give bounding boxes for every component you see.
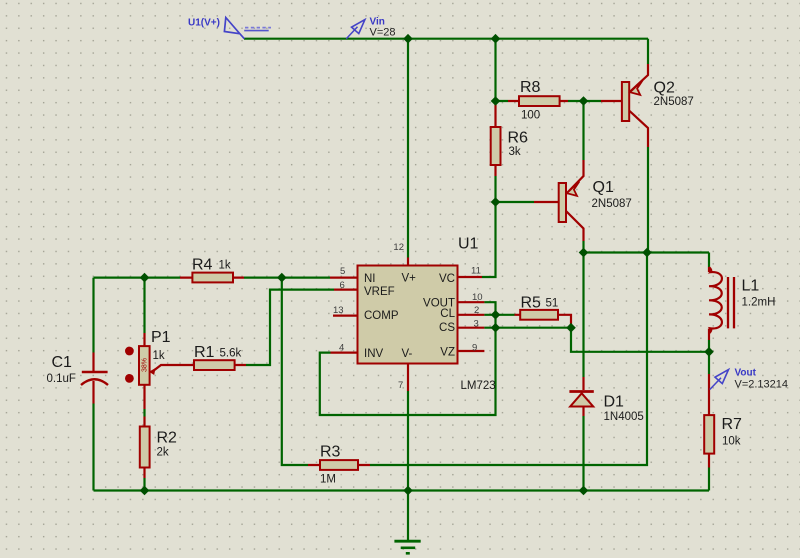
node top rail / left vertical (491, 34, 501, 44)
transistor Q2 2N5087 (622, 82, 629, 121)
wire D1 branch (582, 253, 584, 491)
node Q1 base / R6 bottom (491, 197, 501, 207)
node CS / VOUT vertical (491, 323, 501, 333)
node top rail / pin12 (403, 34, 413, 44)
svg-text:1k: 1k (219, 260, 231, 272)
node NI row / P1 top (140, 273, 150, 283)
svg-text:0.1uF: 0.1uF (47, 373, 76, 385)
svg-text:1N4005: 1N4005 (604, 411, 644, 423)
resistor R7 (704, 415, 714, 454)
node switch rail / Q2 collector (642, 248, 652, 258)
node ground rail / pin7 (403, 486, 413, 496)
wire P1/R2 branch (143, 278, 145, 491)
svg-text:CL: CL (440, 308, 455, 320)
svg-text:38%: 38% (142, 358, 149, 372)
diode D1 1N4005 (569, 390, 593, 393)
wire Q1 collector drop (566, 211, 584, 241)
node ground rail / R2 (140, 486, 150, 496)
svg-text:11: 11 (471, 266, 481, 277)
svg-text:R8: R8 (520, 79, 541, 96)
wire CL row to R5 (459, 315, 572, 328)
node R5 right / CS row (566, 323, 576, 333)
svg-text:D1: D1 (604, 394, 625, 411)
wire left vertical to R8/R6 (494, 39, 496, 101)
svg-text:2N5087: 2N5087 (592, 198, 632, 210)
svg-text:Vout: Vout (735, 368, 757, 379)
resistor R4 (192, 273, 233, 283)
svg-text:10k: 10k (722, 436, 741, 448)
svg-text:VC: VC (439, 273, 455, 285)
resistor R3 (320, 460, 358, 470)
svg-text:CS: CS (439, 322, 455, 334)
wire VZ stub (459, 350, 485, 352)
transistor Q1 2N5087 (559, 183, 566, 222)
svg-text:R3: R3 (320, 444, 341, 461)
svg-text:R4: R4 (192, 257, 213, 274)
wire bottom ground rail (94, 489, 710, 491)
svg-text:U1: U1 (458, 236, 479, 253)
node NI row / R3 riser (277, 273, 287, 283)
svg-text:4: 4 (339, 343, 344, 354)
wire VREF to R1 (235, 290, 357, 365)
svg-text:NI: NI (364, 273, 376, 285)
ground (394, 540, 420, 543)
node R8 right / Q2 base (579, 96, 589, 106)
svg-text:P1: P1 (151, 329, 171, 346)
capacitor C1 (82, 371, 108, 374)
svg-text:V-: V- (402, 348, 413, 360)
svg-text:3k: 3k (509, 146, 521, 158)
wire L1/R7 branch (708, 253, 710, 491)
svg-text:R7: R7 (722, 416, 743, 433)
svg-text:2k: 2k (157, 447, 169, 459)
probe Vout (710, 378, 721, 390)
svg-text:R5: R5 (521, 295, 542, 312)
svg-text:R6: R6 (508, 130, 529, 147)
node CL / VOUT vertical (491, 310, 501, 320)
wire R1 left to wiper (153, 365, 195, 372)
wire Q2 emitter (647, 39, 649, 64)
wire Q2 base (584, 100, 602, 102)
op-amp U1 LM723 body (358, 266, 458, 364)
svg-text:V=28: V=28 (370, 27, 396, 39)
svg-text:VZ: VZ (440, 347, 455, 359)
wire R8 leads (496, 100, 584, 102)
svg-text:L1: L1 (742, 278, 760, 295)
svg-text:1k: 1k (153, 350, 165, 362)
wire switch node rail (584, 251, 710, 253)
wire Q2 collector drop (629, 110, 649, 147)
svg-text:6: 6 (340, 280, 345, 291)
svg-text:R2: R2 (157, 430, 178, 447)
svg-text:3: 3 (474, 319, 479, 330)
svg-text:C1: C1 (52, 354, 73, 371)
svg-text:VREF: VREF (364, 286, 395, 298)
svg-text:100: 100 (521, 110, 540, 122)
node ground rail / D1 (579, 486, 589, 496)
power terminal U1(V+) (224, 18, 244, 39)
wire CS row (459, 327, 485, 329)
resistor R1 (194, 360, 235, 370)
resistor R2 (140, 427, 150, 468)
potentiometer P1 (139, 346, 150, 385)
svg-text:R1: R1 (194, 344, 215, 361)
svg-text:5: 5 (340, 266, 345, 277)
wire V- pin7 to ground (407, 365, 409, 392)
svg-text:2: 2 (474, 305, 479, 316)
svg-text:1M: 1M (320, 474, 336, 486)
wire top power rail (244, 38, 648, 40)
wire NI row (94, 277, 331, 279)
svg-text:13: 13 (333, 305, 344, 316)
wire R6 stubs (494, 101, 496, 176)
svg-text:U1(V+): U1(V+) (188, 18, 220, 29)
svg-text:10: 10 (472, 292, 483, 303)
resistor R8 (519, 96, 560, 106)
svg-text:12: 12 (393, 242, 404, 253)
svg-text:5.6k: 5.6k (220, 348, 242, 360)
resistor R6 (491, 127, 501, 165)
node switch rail / Q1 collector (579, 248, 589, 258)
svg-text:51: 51 (546, 298, 559, 310)
probe Vin (346, 27, 357, 39)
inductor L1 (709, 267, 722, 334)
node L1 bottom / output (704, 347, 714, 357)
node R8 left (491, 96, 501, 106)
svg-text:V+: V+ (402, 273, 417, 285)
svg-text:Q1: Q1 (593, 179, 614, 196)
wire R3 to switch node (282, 253, 647, 466)
wire INV feedback loop (331, 302, 485, 352)
svg-text:Q2: Q2 (654, 80, 675, 97)
svg-text:2N5087: 2N5087 (654, 96, 694, 108)
svg-text:INV: INV (364, 348, 384, 360)
wire COMP stub (333, 315, 357, 317)
resistor R5 (520, 310, 558, 320)
svg-text:7: 7 (398, 380, 403, 391)
wire Q1 base (496, 201, 535, 203)
svg-text:COMP: COMP (364, 310, 399, 322)
svg-text:LM723: LM723 (461, 380, 496, 392)
wire Q1 emitter riser (582, 101, 584, 160)
svg-text:V=2.13214: V=2.13214 (735, 379, 789, 391)
wire C1 branch (92, 278, 94, 491)
svg-text:9: 9 (472, 343, 477, 354)
wire V+ pin12 drop (407, 39, 409, 258)
wire VC riser pin11 (482, 202, 496, 277)
svg-text:1.2mH: 1.2mH (742, 297, 776, 309)
